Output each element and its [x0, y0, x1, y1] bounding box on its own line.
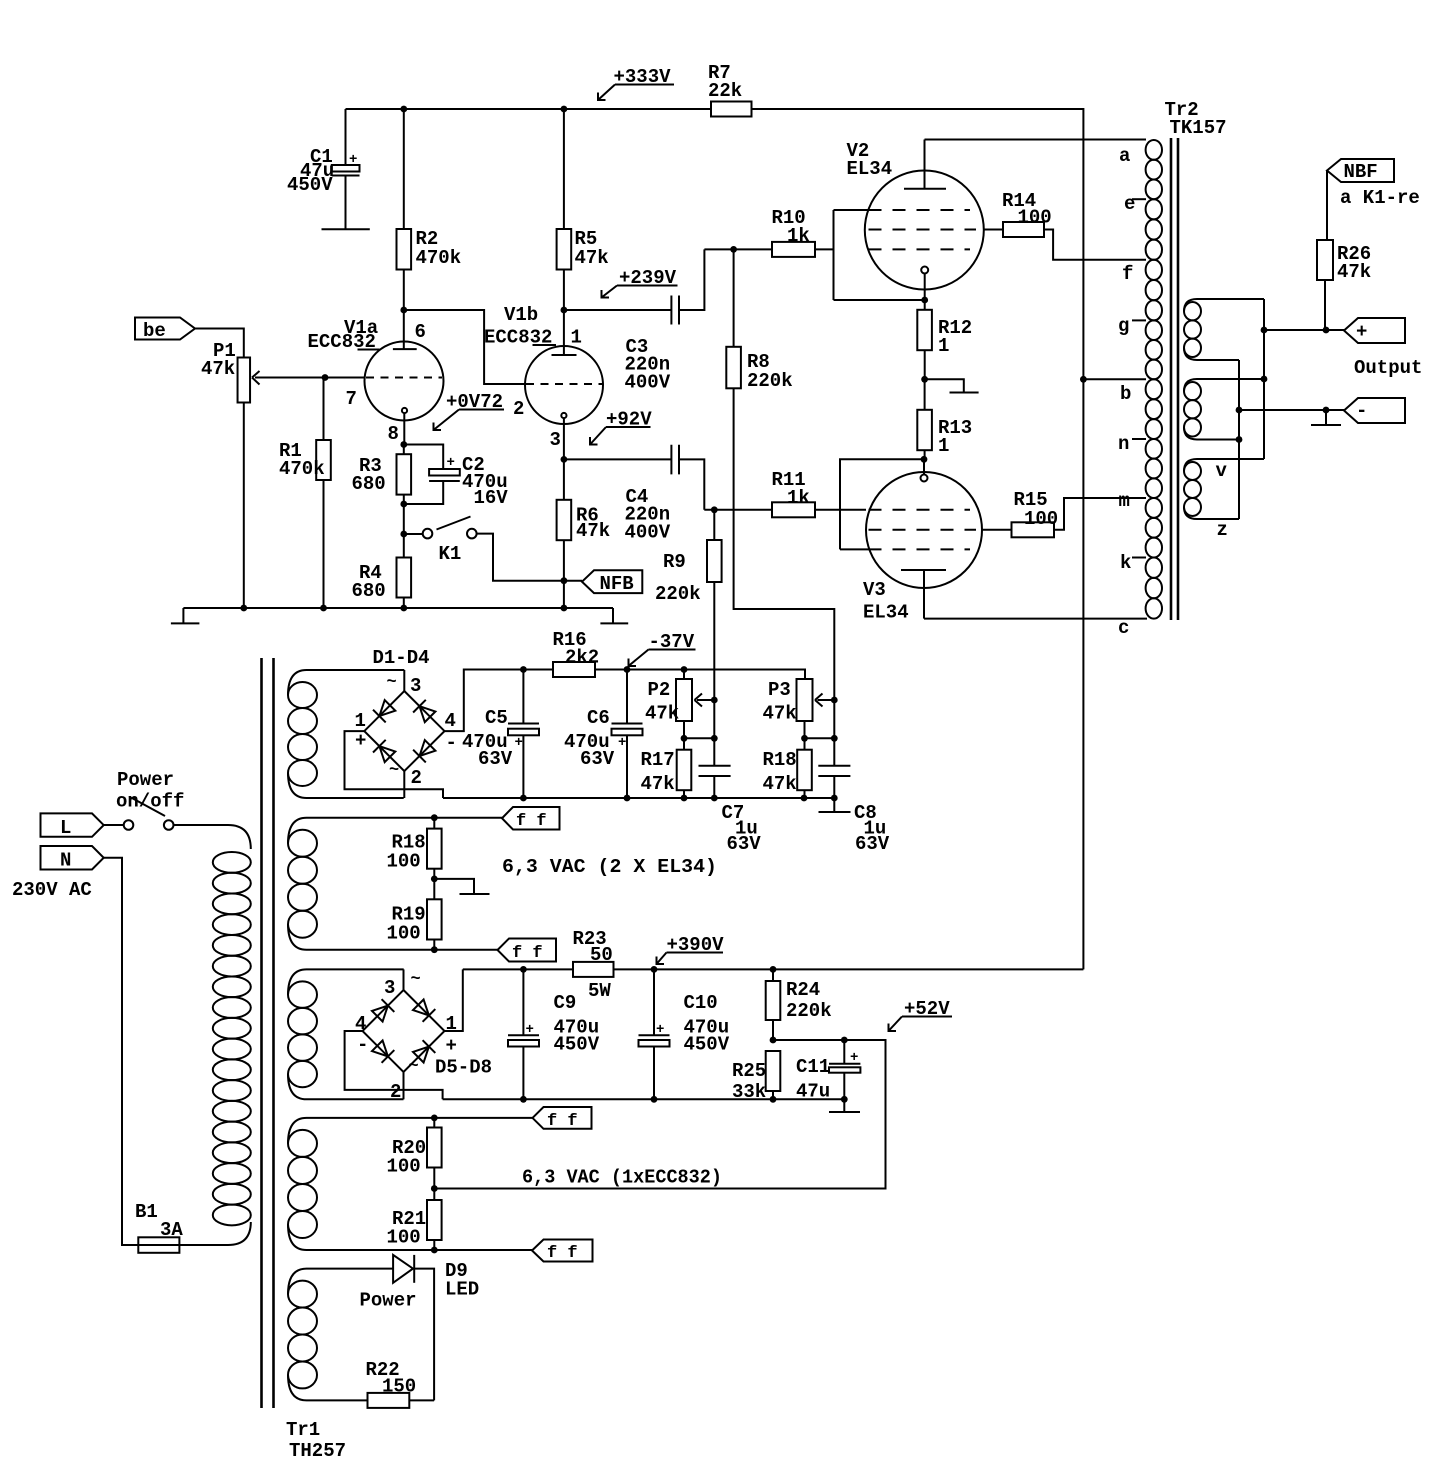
wire heater line 4 to flag ff: [431, 1247, 532, 1254]
svg-text:+: +: [349, 152, 357, 168]
capacitor C5: [462, 670, 539, 799]
wire P3/R18 node to C8: [801, 735, 838, 742]
svg-text:m: m: [1119, 490, 1130, 512]
svg-text:be: be: [143, 320, 166, 342]
svg-text:C6: C6: [587, 707, 610, 729]
wire +52V node: [431, 1037, 886, 1192]
node +239V: [602, 267, 678, 298]
resistor R19: [387, 879, 442, 950]
ground symbol left: [171, 608, 200, 623]
resistor R8: [704, 246, 834, 766]
svg-text:100: 100: [1018, 207, 1052, 229]
svg-text:100: 100: [387, 1227, 421, 1249]
capacitor C11: [796, 1040, 860, 1103]
wire secondary hot bus: [1261, 299, 1268, 459]
resistor R15: [982, 489, 1146, 537]
svg-text:b: b: [1120, 383, 1131, 405]
transformer Tr2 secondary winding 2: [1184, 379, 1264, 482]
label 6,3 VAC (2 X EL34): [502, 856, 717, 878]
transformer Tr2 core: [1165, 99, 1227, 620]
resistor R6: [557, 456, 611, 608]
diode D9 LED: [393, 1255, 479, 1401]
svg-text:f f: f f: [547, 1244, 578, 1263]
svg-text:3: 3: [550, 429, 561, 451]
svg-text:2: 2: [411, 767, 422, 789]
svg-text:+: +: [355, 730, 366, 752]
wire V2 anode to Tr2 tap a: [925, 139, 1147, 141]
svg-text:6,3 VAC (1xECC832): 6,3 VAC (1xECC832): [522, 1167, 722, 1189]
svg-text:V3: V3: [863, 579, 886, 601]
wire +333V / B+ rail: [346, 106, 1084, 970]
resistor R18 (heater): [387, 818, 442, 879]
Tr2 tap f: [1122, 263, 1133, 285]
fuse B1: [122, 1201, 186, 1253]
capacitor C8: [818, 766, 890, 855]
Tr2 tap b: [1080, 376, 1146, 405]
ground for C1: [322, 228, 370, 230]
svg-text:22k: 22k: [708, 80, 742, 102]
svg-text:-: -: [357, 1034, 368, 1056]
wire heater line 2 to flag ff: [431, 946, 498, 953]
wire +390V rail: [463, 966, 1084, 973]
capacitor C2: [400, 441, 508, 509]
svg-text:on/off: on/off: [116, 791, 184, 813]
wire bias negative rail: [443, 795, 838, 802]
node +92V: [590, 409, 652, 445]
svg-text:NBF: NBF: [1344, 161, 1378, 183]
svg-text:LED: LED: [445, 1279, 479, 1301]
transformer Tr1 HT winding 2: [288, 969, 404, 1099]
svg-text:e: e: [1124, 193, 1135, 215]
label a K1-re: [1340, 187, 1420, 209]
transformer Tr1 primary winding: [213, 852, 251, 1225]
pentode V2 EL34: [847, 140, 984, 304]
resistor R5: [557, 109, 609, 310]
svg-text:6,3 VAC (2 X EL34): 6,3 VAC (2 X EL34): [502, 856, 717, 878]
resistor R4: [352, 534, 412, 608]
svg-text:450V: 450V: [287, 174, 333, 196]
svg-text:230V AC: 230V AC: [12, 879, 92, 901]
wire main negative rail: [443, 1096, 848, 1103]
svg-text:EL34: EL34: [847, 158, 893, 180]
node +0V72: [434, 391, 505, 430]
svg-text:3: 3: [384, 977, 395, 999]
svg-text:a: a: [1119, 145, 1130, 167]
capacitor C9: [508, 969, 600, 1099]
wire heater line 1 to flag ff: [431, 814, 502, 821]
Tr2 tap k: [1120, 552, 1146, 574]
capacitor C7: [699, 700, 762, 855]
svg-text:P2: P2: [648, 679, 671, 701]
switch K1: [400, 517, 582, 581]
svg-text:+: +: [656, 1022, 664, 1038]
svg-text:~: ~: [387, 673, 397, 692]
pentode V3 EL34: [863, 459, 982, 623]
svg-text:3: 3: [410, 675, 421, 697]
svg-text:47k: 47k: [641, 773, 675, 795]
svg-text:2: 2: [390, 1081, 401, 1103]
svg-text:7: 7: [346, 388, 357, 410]
wire output plus: [1264, 327, 1344, 334]
node +333V: [598, 66, 674, 100]
svg-text:NFB: NFB: [600, 573, 634, 595]
svg-text:5W: 5W: [588, 980, 611, 1002]
transformer Tr1 heater winding 6.3V EL34: [288, 818, 434, 950]
flag NFB: [561, 570, 643, 595]
svg-text:C11: C11: [796, 1056, 830, 1078]
svg-text:63V: 63V: [855, 833, 890, 855]
svg-text:Power: Power: [360, 1290, 417, 1312]
wire V3 anode to Tr2 tap c: [924, 618, 1147, 620]
svg-text:1k: 1k: [787, 225, 810, 247]
svg-text:47k: 47k: [763, 773, 797, 795]
capacitor C6: [564, 670, 643, 799]
transformer Tr1 heater winding 6.3V ECC832: [288, 1118, 434, 1250]
ground symbol right: [600, 608, 628, 623]
svg-text:47k: 47k: [645, 703, 679, 725]
transformer Tr1 HT winding 1: [288, 670, 404, 798]
svg-text:680: 680: [352, 580, 386, 602]
svg-text:z: z: [1217, 519, 1228, 541]
svg-text:220k: 220k: [655, 583, 701, 605]
svg-text:1: 1: [571, 327, 582, 349]
node R12/R13 junction with ground: [921, 376, 978, 393]
potentiometer P1: [201, 340, 328, 608]
svg-text:47k: 47k: [201, 358, 235, 380]
svg-text:47k: 47k: [576, 520, 610, 542]
svg-text:2: 2: [513, 398, 524, 420]
resistor R21: [387, 1189, 442, 1251]
svg-text:+: +: [618, 735, 626, 751]
svg-text:1: 1: [355, 710, 366, 732]
wire Tr1 primary bottom to fuse: [186, 1222, 251, 1245]
svg-text:470k: 470k: [416, 247, 462, 269]
svg-text:63V: 63V: [478, 748, 513, 770]
flag + output: [1344, 318, 1405, 343]
svg-text:g: g: [1118, 315, 1129, 337]
wire D5-D8 minus output: [345, 1031, 443, 1099]
svg-text:400V: 400V: [625, 372, 671, 394]
wire D1-D4 minus output: [445, 666, 527, 731]
svg-text:2k2: 2k2: [565, 647, 599, 669]
node +52V: [889, 998, 953, 1031]
flag ff (3): [533, 1107, 592, 1131]
flag NBF: [1327, 159, 1394, 240]
svg-text:47k: 47k: [763, 703, 797, 725]
svg-text:Output: Output: [1354, 357, 1422, 379]
flag - output: [1344, 398, 1405, 423]
Tr2 tap g: [1118, 315, 1146, 337]
triode V1b ECC832: [484, 304, 603, 459]
svg-text:L: L: [60, 817, 71, 839]
svg-text:+: +: [1356, 321, 1367, 343]
svg-text:-: -: [446, 732, 457, 754]
svg-text:400V: 400V: [625, 522, 671, 544]
capacitor C3: [564, 249, 705, 393]
Tr2 tap e: [1124, 193, 1146, 215]
resistor R23: [573, 928, 614, 1002]
bridge rectifier D5-D8: [355, 969, 457, 1103]
flag ff (2): [498, 939, 557, 964]
svg-text:1k: 1k: [787, 487, 810, 509]
transformer Tr2 secondary winding 3: [1184, 459, 1264, 541]
svg-text:R18: R18: [763, 749, 797, 771]
wire P2/R17 node to C7: [681, 735, 718, 742]
ground rail of input stage: [183, 605, 613, 612]
label D1-D4: [373, 647, 430, 669]
resistor R20: [387, 1118, 442, 1189]
Tr2 tap a: [1119, 145, 1130, 167]
svg-text:R24: R24: [786, 979, 820, 1001]
wire switch to Tr1 primary: [174, 825, 251, 849]
svg-text:~: ~: [409, 1057, 419, 1076]
potentiometer P2: [645, 670, 718, 750]
svg-text:63V: 63V: [727, 833, 762, 855]
svg-text:100: 100: [387, 1156, 421, 1178]
resistor R16: [523, 629, 805, 679]
flag ff (4): [532, 1240, 593, 1264]
resistor R3: [352, 445, 412, 535]
svg-text:f f: f f: [512, 944, 543, 963]
svg-text:C9: C9: [554, 992, 577, 1014]
svg-text:3A: 3A: [160, 1219, 183, 1241]
Tr2 tap c: [1118, 617, 1129, 639]
ground of bias rail: [819, 798, 851, 812]
svg-text:B1: B1: [135, 1201, 158, 1223]
ground at output: [1311, 410, 1341, 425]
svg-text:Power: Power: [117, 769, 174, 791]
svg-text:1: 1: [938, 435, 949, 457]
svg-text:150: 150: [382, 1376, 416, 1398]
label 230V AC: [12, 879, 92, 901]
svg-text:~: ~: [411, 970, 421, 989]
transformer Tr2 primary winding: [1146, 140, 1162, 619]
capacitor C10: [639, 969, 730, 1099]
svg-text:a K1-re: a K1-re: [1340, 187, 1420, 209]
transformer Tr1 core: [262, 658, 274, 1408]
svg-text:c: c: [1118, 617, 1129, 639]
svg-text:33k: 33k: [732, 1081, 766, 1103]
label 6,3 VAC (1xECC832): [522, 1167, 722, 1189]
flag be: [135, 318, 244, 358]
svg-text:f f: f f: [516, 812, 547, 831]
resistor R14: [984, 190, 1146, 260]
wire secondary cold bus: [1236, 360, 1243, 519]
svg-text:+: +: [526, 1022, 534, 1038]
svg-text:220k: 220k: [786, 1000, 832, 1022]
resistor R26: [1317, 240, 1371, 330]
svg-text:63V: 63V: [580, 748, 615, 770]
node -37V: [624, 631, 696, 673]
svg-text:47u: 47u: [796, 1081, 830, 1103]
svg-text:220k: 220k: [747, 370, 793, 392]
svg-text:R25: R25: [732, 1060, 766, 1082]
flag ff (1): [502, 807, 560, 831]
label Power on/off: [116, 769, 184, 813]
wire heater line 3 to flag ff: [431, 1115, 533, 1122]
svg-text:R17: R17: [641, 749, 675, 771]
svg-text:n: n: [1118, 433, 1129, 455]
resistor R11: [704, 469, 866, 517]
wire output minus: [1239, 407, 1344, 414]
wire V1a anode to V1b grid: [400, 307, 525, 384]
capacitor C1: [287, 109, 360, 229]
resistor R9: [655, 510, 722, 700]
wire D1-D4 plus output: [345, 731, 444, 798]
svg-text:C5: C5: [485, 707, 508, 729]
svg-text:D1-D4: D1-D4: [373, 647, 430, 669]
resistor R25: [732, 1037, 780, 1103]
switch Power on/off: [124, 798, 174, 830]
svg-text:Tr1: Tr1: [286, 1419, 320, 1441]
Tr2 tap n: [1118, 433, 1146, 455]
resistor R24: [766, 969, 832, 1040]
triode V1a ECC832: [308, 310, 444, 445]
svg-text:-: -: [1356, 400, 1367, 422]
resistor R1: [279, 378, 331, 609]
svg-text:+: +: [446, 1035, 457, 1057]
svg-text:TK157: TK157: [1170, 117, 1227, 139]
svg-text:EL34: EL34: [863, 602, 909, 624]
svg-text:+: +: [515, 735, 523, 751]
svg-text:D5-D8: D5-D8: [435, 1057, 492, 1079]
svg-text:4: 4: [445, 710, 456, 732]
svg-text:100: 100: [387, 923, 421, 945]
svg-text:N: N: [60, 850, 71, 872]
potentiometer P3: [763, 679, 838, 750]
svg-text:~: ~: [389, 761, 399, 780]
bridge rectifier D1-D4: [355, 670, 457, 798]
svg-text:C10: C10: [684, 992, 718, 1014]
resistor R22: [366, 1359, 435, 1408]
svg-text:100: 100: [387, 851, 421, 873]
svg-text:k: k: [1120, 552, 1131, 574]
svg-text:450V: 450V: [554, 1034, 600, 1056]
svg-text:f: f: [1122, 263, 1133, 285]
label Tr1: [286, 1419, 346, 1462]
flag N: [41, 846, 139, 1245]
svg-text:100: 100: [1024, 508, 1058, 530]
resistor R10: [772, 207, 834, 257]
resistor R7: [708, 62, 752, 117]
wire V3 grid/suppressor: [840, 456, 927, 550]
flag L: [41, 813, 124, 839]
label Output: [1354, 357, 1422, 379]
node heater CT ground: [431, 876, 490, 895]
svg-text:P3: P3: [768, 679, 791, 701]
node +390V: [657, 934, 725, 964]
svg-text:50: 50: [590, 944, 613, 966]
resistor R17: [641, 749, 692, 798]
svg-text:f f: f f: [547, 1112, 578, 1131]
transformer Tr2 secondary winding 1: [1184, 299, 1264, 360]
svg-text:TH257: TH257: [289, 1440, 346, 1462]
svg-text:16V: 16V: [474, 487, 509, 509]
svg-text:680: 680: [352, 473, 386, 495]
svg-text:450V: 450V: [684, 1034, 730, 1056]
svg-text:K1: K1: [439, 543, 462, 565]
transformer Tr1 LED winding: [288, 1269, 393, 1401]
resistor R2: [397, 109, 462, 310]
wire D5-D8 plus output: [445, 969, 463, 1031]
svg-text:R9: R9: [663, 551, 686, 573]
label D5-D8: [435, 1057, 492, 1079]
ground of main supply: [829, 1099, 860, 1112]
resistor R13: [917, 379, 972, 459]
svg-text:47k: 47k: [575, 247, 609, 269]
svg-text:470k: 470k: [279, 458, 325, 480]
label Power lamp: [360, 1290, 417, 1312]
svg-text:6: 6: [415, 321, 426, 343]
resistor R18 (bias): [763, 749, 812, 798]
svg-text:v: v: [1216, 460, 1228, 482]
svg-text:V1b: V1b: [504, 304, 538, 326]
svg-text:1: 1: [938, 335, 949, 357]
svg-text:+: +: [447, 455, 455, 471]
resistor R12: [917, 300, 972, 379]
capacitor C4: [564, 445, 704, 544]
svg-text:+: +: [850, 1050, 858, 1066]
Tr2 tap m: [1119, 490, 1130, 512]
wire V2 grid/suppressor: [834, 210, 925, 300]
svg-text:47k: 47k: [1337, 261, 1371, 283]
svg-text:8: 8: [388, 423, 399, 445]
